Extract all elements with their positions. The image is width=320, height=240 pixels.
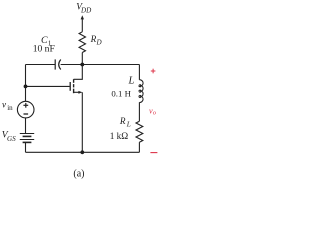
source vin (circle with +/-): [17, 101, 34, 118]
wire: RD bottom to node: [81, 53, 83, 65]
wire: bottom rail: [26, 151, 140, 153]
transistor M1 (NMOS): [70, 65, 82, 153]
wire: RL bottom to bottom rail: [138, 142, 140, 152]
svg-text:o: o: [153, 110, 156, 117]
label minus (red): [150, 152, 157, 154]
capacitor C1: [55, 59, 61, 69]
svg-text:1 kΩ: 1 kΩ: [110, 132, 129, 142]
wire: inductor bottom to RL top: [138, 102, 140, 121]
transistor source arrow: [78, 91, 82, 94]
svg-text:L: L: [126, 121, 131, 129]
source lead: [74, 91, 80, 93]
power VDD arrow: [81, 15, 84, 19]
wire: battery bottom to bottom rail: [25, 142, 27, 152]
node: drain node junction dot: [80, 63, 84, 67]
resistor RD: [79, 32, 85, 53]
wire: gate lead from left node to transistor: [26, 85, 70, 87]
gate bar: [69, 82, 71, 91]
wire: VDD arrow lead: [81, 18, 83, 32]
svg-text:0.1 H: 0.1 H: [111, 88, 131, 98]
node: gate node junction dot: [24, 85, 28, 89]
wire: vin source bottom to battery: [25, 118, 27, 134]
svg-text:R: R: [119, 116, 126, 126]
wire: top horizontal left segment (node to capacitor): [26, 64, 56, 66]
svg-text:10 nF: 10 nF: [33, 43, 55, 54]
label plus (red): [151, 69, 156, 74]
battery VGS: [20, 134, 34, 143]
wire: top horizontal right segment (capacitor to node and right branch): [61, 64, 140, 66]
svg-text:DD: DD: [80, 6, 92, 14]
drain lead: [74, 65, 83, 80]
svg-text:GS: GS: [7, 135, 16, 143]
channel dashes: [73, 79, 75, 93]
wire: right branch top corner to inductor: [138, 65, 140, 80]
inductor L: [139, 80, 143, 103]
resistor RL: [136, 121, 143, 142]
svg-text:L: L: [128, 75, 135, 86]
svg-text:in: in: [7, 104, 13, 112]
svg-text:D: D: [96, 39, 103, 47]
svg-text:(a): (a): [73, 168, 84, 179]
node: source bottom junction dot: [80, 150, 84, 154]
caption (a): [73, 168, 84, 179]
wire: left vertical from top corner to gate node: [25, 65, 27, 102]
